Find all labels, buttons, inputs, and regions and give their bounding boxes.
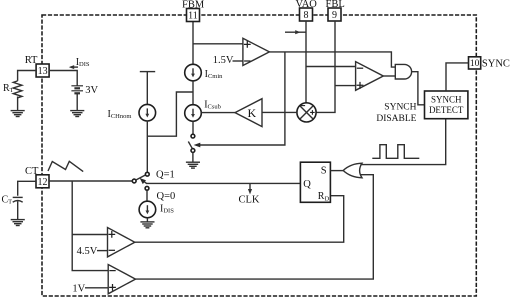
- wire ICHnom down to switch top contact: [146, 121, 148, 172]
- wire SW1 bottom contact to IDIS source: [146, 190, 148, 201]
- svg-text:Q=1: Q=1: [156, 170, 175, 181]
- pin 9 FBL: [328, 8, 341, 21]
- wire VAO vertical from pin 8: [305, 21, 307, 103]
- svg-text:8: 8: [304, 10, 309, 21]
- battery 3V: [71, 86, 83, 94]
- wire S input from OR gate: [330, 170, 343, 172]
- switch SW1 bottom contact: [145, 186, 149, 190]
- ground under SW2: [186, 162, 200, 168]
- op-amp U3 (4.5V comparator): [108, 228, 135, 257]
- svg-text:11: 11: [188, 11, 198, 22]
- wire FBL vertical from pin 9 to multiplier: [316, 21, 335, 112]
- svg-text:VAO: VAO: [296, 0, 318, 10]
- wire branch to 4.5V comparator + input: [72, 234, 107, 236]
- switch SW2 bottom contact: [191, 149, 195, 153]
- svg-text:1.5V: 1.5V: [213, 55, 234, 66]
- svg-text:DISABLE: DISABLE: [376, 114, 416, 124]
- pin 11 FBM: [187, 9, 200, 22]
- svg-text:4.5V: 4.5V: [77, 246, 98, 257]
- wire U1 output to AND gate top input: [269, 52, 395, 67]
- wire cap to ground: [17, 201, 19, 219]
- svg-text:CLK: CLK: [239, 195, 260, 206]
- wire K to ICsub: [201, 112, 235, 114]
- capacitor CT: [13, 196, 23, 198]
- wire ICsub down to switch contact: [192, 121, 194, 134]
- wire multiplier to K amp: [262, 111, 297, 113]
- svg-text:DETECT: DETECT: [429, 105, 464, 115]
- pin 8 VAO: [300, 8, 313, 21]
- amp K: [235, 99, 262, 127]
- wire pin13 to RT resistor: [18, 71, 36, 81]
- CLK tap arrow: [249, 183, 251, 189]
- ground under RT: [11, 111, 25, 117]
- wire link FBM node to ICHnom branch: [147, 92, 193, 136]
- sawtooth waveform above CT: [48, 161, 83, 171]
- svg-text:SYNCH: SYNCH: [431, 94, 462, 104]
- current source ICsub: [185, 105, 202, 122]
- wire ICmin to ICsub: [192, 81, 194, 105]
- svg-text:SYNC: SYNC: [482, 59, 510, 70]
- op-amp U1 (1.5V comparator): [243, 38, 270, 65]
- ground under CT cap: [11, 220, 25, 226]
- wire rail to ICHnom: [146, 72, 148, 105]
- svg-text:Q=0: Q=0: [157, 191, 176, 202]
- switch SW1 top contact: [145, 172, 149, 176]
- svg-text:FBL: FBL: [326, 0, 345, 10]
- wire VAO node to U2 - input: [306, 66, 356, 68]
- switch SW2 top contact: [191, 134, 195, 138]
- wire FBM vertical from pin 11: [192, 22, 194, 65]
- block SYNCH DETECT: [425, 91, 468, 119]
- latch U5 (SR flip-flop): [300, 162, 330, 202]
- wire FBL node to U2 + input: [335, 85, 356, 87]
- wire AND output to SYNCH DETECT: [412, 72, 425, 105]
- arrow IDIS current direction: [71, 66, 79, 68]
- pin 10 SYNC: [469, 57, 481, 69]
- wire pin12 to CT cap: [18, 181, 36, 195]
- current source ICmin: [185, 64, 202, 81]
- current source ICHnom: [139, 104, 156, 121]
- wire comp U1 + input from FBM node: [193, 43, 243, 45]
- wire U4 output to OR gate lower input: [136, 175, 374, 279]
- current source IDIS: [139, 201, 156, 218]
- ground under IDIS: [140, 222, 154, 228]
- wire OR top input from SYNCH DETECT: [360, 119, 445, 165]
- svg-text:K: K: [247, 106, 256, 120]
- wire RT to ground: [17, 97, 19, 111]
- supply rail bar above ICHnom: [140, 71, 155, 73]
- AND gate G1: [395, 64, 411, 79]
- op-amp U4 (1V comparator): [108, 265, 135, 294]
- svg-text:1V: 1V: [72, 283, 85, 294]
- ground under battery: [70, 111, 84, 117]
- svg-text:SYNCH: SYNCH: [384, 102, 416, 112]
- op-amp U2: [356, 62, 384, 91]
- svg-text:12: 12: [38, 177, 48, 188]
- arrow into VAO line: [285, 31, 306, 33]
- switch SW1 blade closed to top: [136, 175, 146, 180]
- svg-text:3V: 3V: [85, 85, 98, 96]
- wire SW2 to ground: [192, 152, 194, 162]
- wire IDIS to ground: [146, 218, 148, 222]
- svg-text:13: 13: [38, 66, 48, 77]
- wire U3 output to RD of latch: [135, 196, 344, 243]
- wire pin13 to 3V battery: [49, 71, 77, 86]
- svg-text:CT: CT: [25, 166, 39, 177]
- svg-text:RT: RT: [25, 55, 38, 66]
- wire U2 output to AND gate: [383, 75, 395, 77]
- wire U1 output branch down to ICsub switch control arrow: [200, 52, 285, 145]
- svg-text:10: 10: [470, 59, 480, 69]
- pin 12 CT: [36, 175, 49, 188]
- wire CT line from pin12 to switch pole: [49, 180, 132, 182]
- wire 4.5V label to - input: [97, 250, 108, 252]
- pin 13 RT: [36, 64, 49, 77]
- wire 1.5V to U1 - input: [233, 60, 243, 62]
- multiplier X1: [297, 103, 316, 122]
- wire SYNCH DETECT to pin 10: [446, 63, 469, 91]
- switch SW2 blade (open): [188, 142, 192, 149]
- svg-text:FBM: FBM: [182, 0, 205, 11]
- wire 1V label to + input: [85, 287, 108, 289]
- switch SW1 pole contact: [132, 179, 136, 183]
- wire Q line from latch to switch control arrow: [146, 182, 300, 184]
- svg-text:S: S: [321, 165, 327, 176]
- svg-text:Q: Q: [303, 179, 311, 190]
- pulse waveform: [372, 145, 419, 159]
- wire battery to ground: [76, 93, 78, 110]
- OR gate G2 (mirrored, output to S): [343, 163, 362, 178]
- wire CT node down to lower comparators: [72, 181, 108, 271]
- resistor RT: [13, 81, 22, 98]
- svg-text:9: 9: [332, 10, 337, 21]
